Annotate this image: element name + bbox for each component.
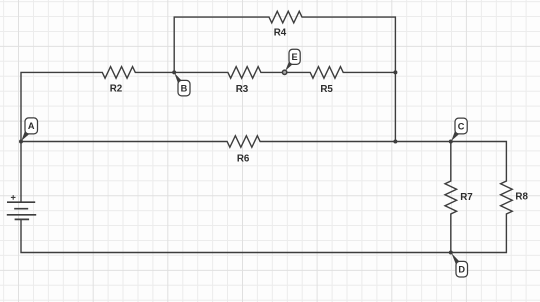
svg-text:D: D: [458, 265, 465, 275]
svg-text:R7: R7: [460, 192, 473, 203]
svg-text:R3: R3: [236, 84, 249, 95]
svg-text:C: C: [458, 121, 465, 131]
svg-text:R6: R6: [237, 153, 250, 164]
svg-text:B: B: [181, 83, 188, 93]
svg-text:R5: R5: [320, 84, 333, 95]
svg-text:A: A: [28, 121, 35, 131]
svg-text:R4: R4: [274, 28, 287, 39]
svg-text:R2: R2: [110, 84, 123, 95]
svg-text:R8: R8: [515, 192, 528, 203]
svg-text:E: E: [292, 52, 298, 62]
